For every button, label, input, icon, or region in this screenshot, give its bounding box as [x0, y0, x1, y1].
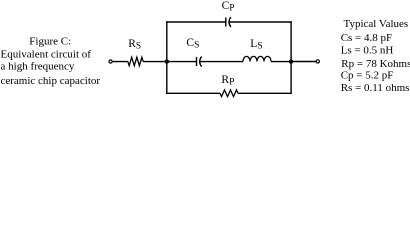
svg-text:RS: RS: [128, 38, 141, 51]
caption: typical values list: [341, 18, 410, 94]
wire: capacitor CS to inductor LS: [200, 61, 243, 63]
wire: right rail: [290, 21, 292, 94]
right terminal: [316, 60, 319, 63]
resistor RP: [220, 90, 238, 97]
svg-text:Figure C:: Figure C:: [29, 36, 71, 48]
svg-text:Cs = 4.8 pF: Cs = 4.8 pF: [341, 32, 392, 44]
left terminal: [109, 60, 112, 63]
svg-text:CS: CS: [186, 37, 199, 50]
capacitor CP: [226, 17, 231, 27]
svg-text:RP: RP: [221, 74, 234, 87]
wire: inductor LS to node B: [271, 61, 291, 63]
caption: figure title: [1, 36, 101, 87]
wire: top rail left segment: [166, 21, 226, 23]
wire: left terminal to resistor RS: [112, 61, 128, 63]
inductor LS: [243, 56, 271, 61]
svg-text:Ls = 0.5 nH: Ls = 0.5 nH: [341, 44, 394, 56]
capacitor CS: [197, 57, 202, 67]
node B junction dot: [289, 59, 293, 63]
svg-text:a high frequency: a high frequency: [1, 61, 75, 73]
svg-text:LS: LS: [250, 38, 262, 51]
svg-text:Rs = 0.11 ohms: Rs = 0.11 ohms: [341, 82, 410, 94]
svg-text:ceramic chip capacitor: ceramic chip capacitor: [1, 75, 101, 87]
wire: left rail: [166, 21, 168, 94]
svg-text:Cp = 5.2 pF: Cp = 5.2 pF: [341, 70, 394, 82]
svg-text:Rp = 78 Kohms: Rp = 78 Kohms: [341, 58, 410, 70]
wire: middle rail, node A to capacitor CS: [167, 61, 197, 63]
wire: bottom rail left segment: [166, 92, 220, 94]
wire: node B to right terminal: [291, 61, 316, 63]
wire: resistor RS to node A: [143, 61, 167, 63]
svg-text:Equivalent circuit of: Equivalent circuit of: [1, 49, 92, 61]
svg-text:Typical Values: Typical Values: [344, 18, 409, 30]
resistor RS: [128, 57, 143, 65]
wire: top rail right segment: [229, 21, 291, 23]
svg-text:CP: CP: [222, 0, 235, 13]
wire: bottom rail right segment: [238, 92, 292, 94]
node A junction dot: [165, 59, 169, 63]
